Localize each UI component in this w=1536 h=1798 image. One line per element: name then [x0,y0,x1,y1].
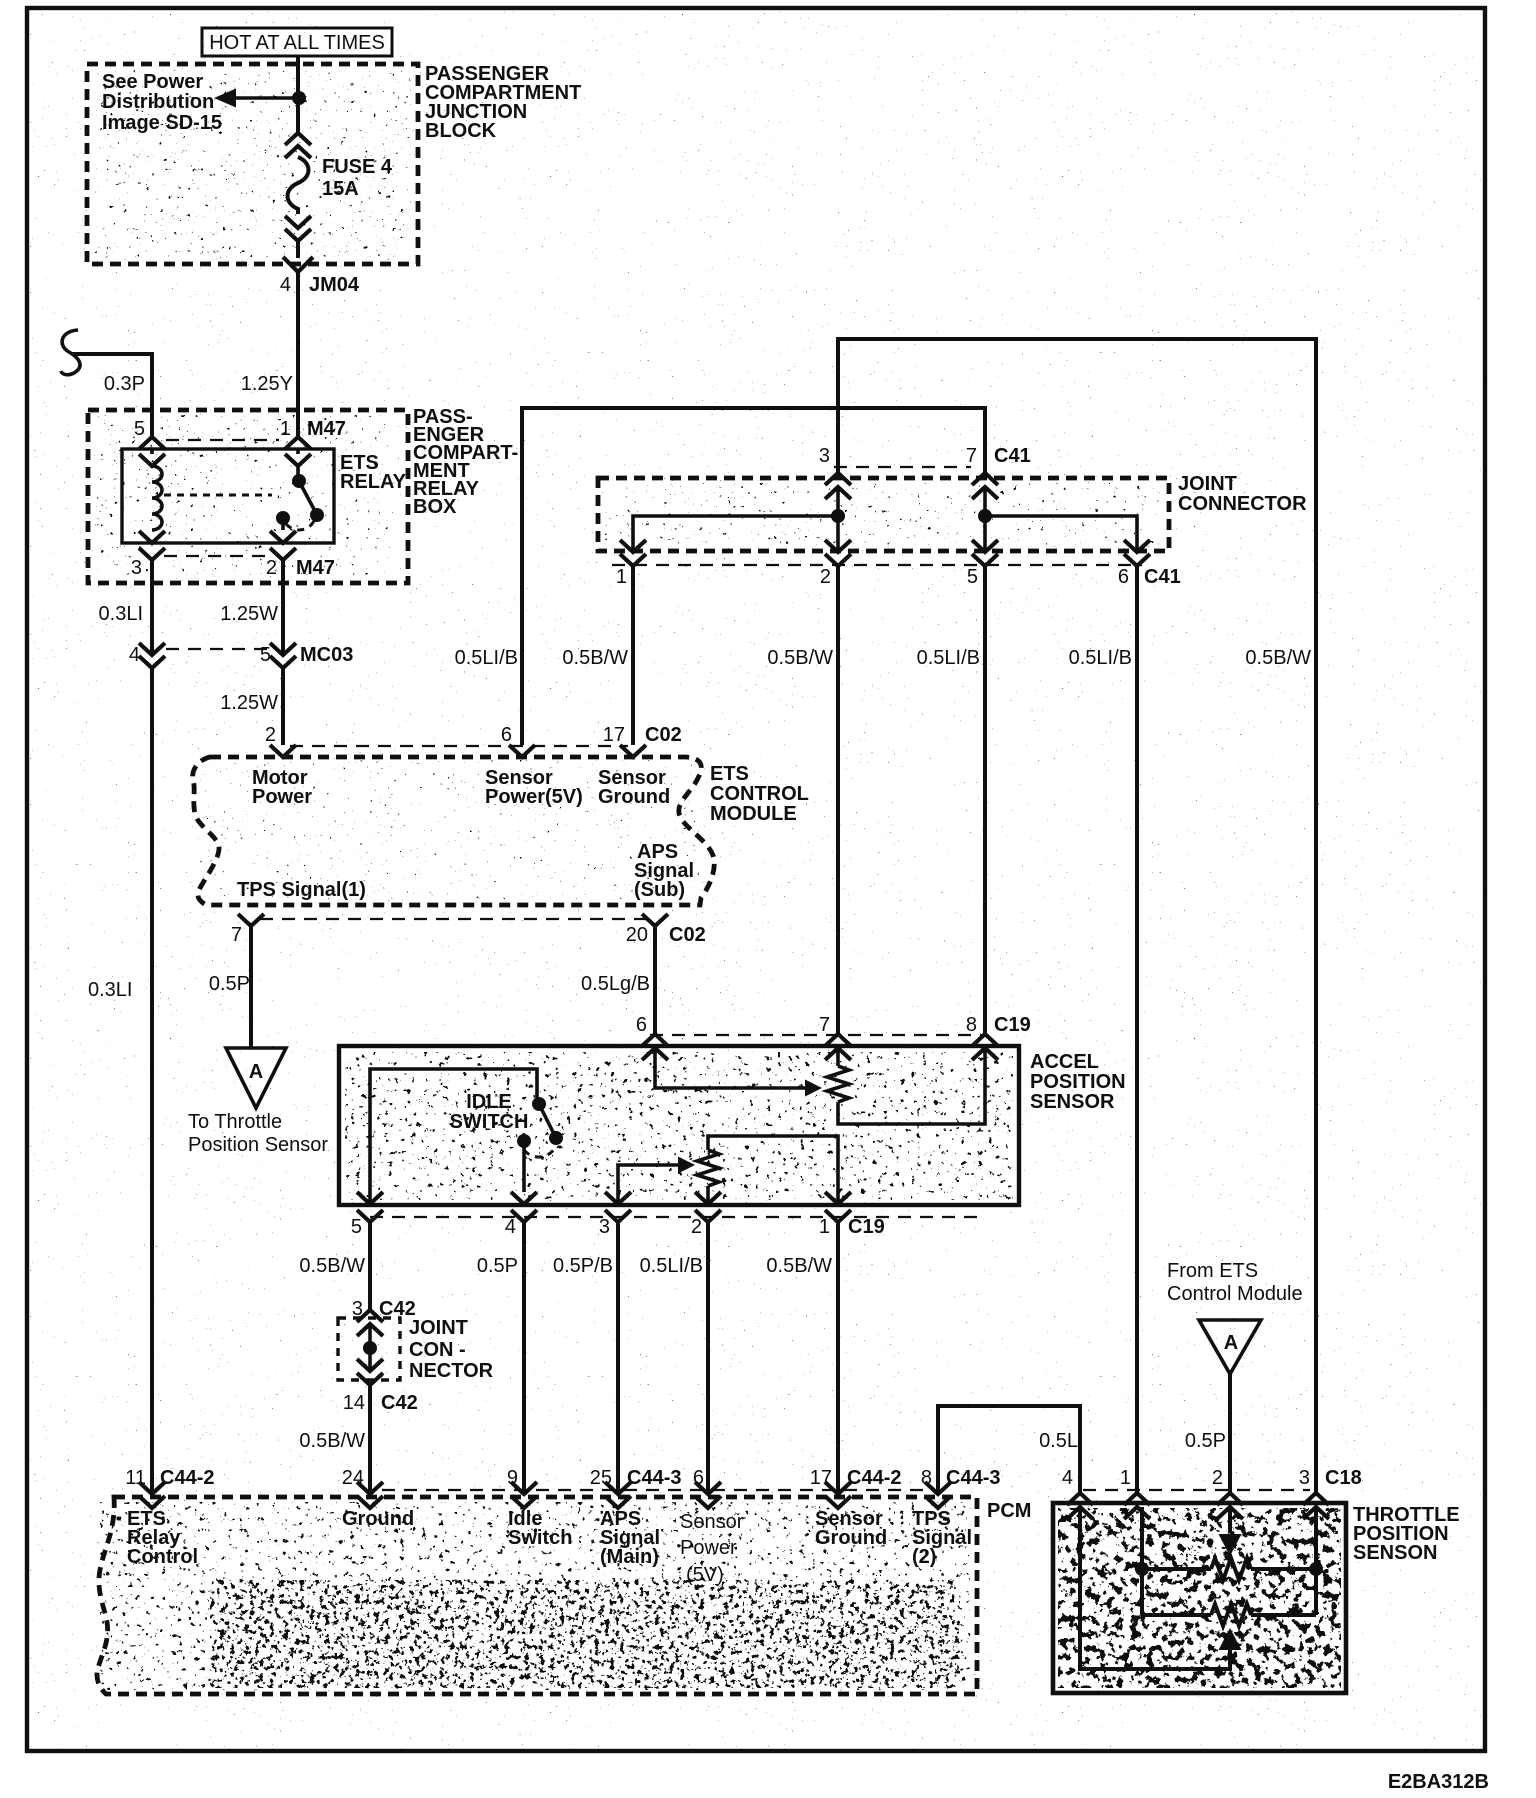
PCM pin 17 C44-2 sensor ground [810,1467,902,1549]
accel sensor pin 7 [819,1014,851,1060]
PCM pin 8 C44-3 TPS signal 2 [912,1467,1000,1568]
TPS pin 2 [1212,1467,1243,1519]
joint connector internal bus pins 1-2-3 [633,509,845,552]
relay pin 1 connector M47 [280,418,346,449]
joint connector C41 pin 1 [616,540,646,588]
off-page triangle A to throttle position sensor [188,1048,328,1156]
joint connector C41 pin 7 [966,445,1031,516]
PCM pin 6 sensor power [680,1467,744,1586]
note See Power Distribution Image SD-15 [102,71,222,134]
wire 0.5B/W C42 pin 14 to PCM pin 24 [299,1385,370,1494]
power tag HOT AT ALL TIMES [202,28,392,56]
relay pin 2 connector M47 [266,548,335,579]
accel position sensor box [339,1035,1126,1217]
TPS wiper from pin 2 onto R1 [1219,1507,1242,1556]
PCM pin 24 ground [342,1467,414,1530]
wire 0.3P with torn end [61,330,152,437]
TPS pin 3 C18 [1299,1467,1362,1519]
joint connector C41 pin 5 [967,540,998,588]
in-line connector pin 5 MC03 [260,643,353,668]
wire 0.5L PCM pin 8 to TPS pin 4 [938,1406,1080,1494]
off-page triangle A from ETS control module [1167,1260,1303,1374]
accel sensor pin 2 [691,1192,721,1238]
wire 0.5B/W sensor ground bus from C41 pin 3 to TPS pin 3 [838,339,1316,1493]
accel sensor pin 4 [505,1192,537,1238]
ETS control module pin 6 [501,724,535,757]
accel sensor pin 5 [351,1192,383,1238]
accel TPS1 potentiometer resistor [697,1136,838,1204]
accel sensor pin 1 C19 [819,1192,885,1238]
wire 0.5Lg/B from module pin 20 to accel sensor pin 6 [581,926,655,1034]
wire 1.25W to ETS control module pin 2 [220,668,283,745]
wire 0.5P/B accel pin 3 to PCM pin 25 [553,1222,618,1494]
PCM pin 11 C44-2 [125,1467,214,1568]
PCM pin 9 idle switch [507,1467,573,1549]
joint connector C41 box [598,467,1307,565]
wire 0.5B/W from C41 pin 2 to accel sensor pin 7 [767,566,838,1034]
relay coil [139,449,165,543]
fuse FUSE 4 15A [285,133,393,241]
ETS control module pin 17 C02 [603,724,682,757]
wire from HOT AT ALL TIMES to fuse [296,56,300,133]
ETS control module pin 7 [231,914,650,946]
joint connector C41 pin 6 [1118,540,1181,588]
wire 0.5P accel pin 4 to PCM pin 9 [477,1222,524,1494]
accel sensor pin 6 [636,1014,668,1060]
wire 1.25Y [241,272,298,437]
connector JM04 pin 4 [280,241,360,296]
TPS resistor R2 parallel leg [1142,1569,1316,1626]
relay switch [270,449,324,543]
wire 0.5B/W joint connector pin 1 to module pin 17 [562,565,633,745]
accel APS sub potentiometer resistor [827,1048,985,1124]
wire 0.5B/W accel pin 5 to joint connector C42 [299,1222,370,1310]
accel sensor pin 3 [599,1192,631,1238]
joint connector C41 pin 3 [819,445,851,516]
wire 0.5B/W accel pin 1 to PCM pin 17 [766,1222,838,1494]
passenger compartment relay box [88,406,518,583]
wire 0.3LI from relay pin 3 [99,560,152,655]
wire 0.5LI/B accel pin 2 to PCM pin 6 [640,1222,708,1494]
throttle position sensor box [1053,1490,1460,1693]
ETS control module box [193,757,809,905]
TPS pin 4 [1062,1467,1093,1519]
joint connector internal bus pins 5-6-7 [978,509,1137,552]
wire 1.25W from relay pin 2 [220,560,283,655]
accel TPS1 potentiometer wiper from pin 3 [618,1157,695,1205]
idle switch [370,1069,563,1204]
joint connector C41 pin 2 [820,540,851,588]
TPS resistor R1 between pins 1 and 3 [1135,1507,1323,1580]
TPS wiper from pin 4 onto R2 [1080,1507,1242,1669]
relay actuating link [164,494,272,497]
wire 0.5LI/B from C41 pin 6 to TPS pin 1 [1069,566,1137,1493]
wire 0.5LI/B from C41 pin 5 to accel sensor pin 8 [917,566,985,1034]
passenger compartment junction block box [87,63,581,264]
PCM pin 25 C44-3 APS signal main [590,1467,682,1568]
wire 0.5P to triangle A [209,926,251,1048]
PCM box [97,1490,1031,1694]
relay pin 5 connector M47 [134,418,279,449]
relay ETS RELAY [122,449,407,543]
node junction at fuse feed [292,91,306,105]
wire 0.3LI long run to PCM pin 11 [88,668,152,1494]
TPS pin 1 [1120,1467,1150,1519]
accel sensor pin 8 C19 [966,1014,1031,1060]
wire 0.5P triangle A to TPS pin 2 [1185,1374,1230,1493]
ETS control module pin 20 C02 [626,914,706,946]
relay pin 3 [131,548,268,579]
arrow to power distribution [214,89,299,108]
wire 0.5LI/B from module pin 6 to joint connector pin 7 [455,408,985,745]
ETS control module pin 2 [265,724,628,757]
accel APS sub potentiometer wiper from pin 6 [655,1048,822,1097]
svg-text:E2BA312B: E2BA312B [1388,1771,1489,1793]
joint connector C42 [338,1298,494,1414]
in-line connector pin 4 [129,643,268,668]
